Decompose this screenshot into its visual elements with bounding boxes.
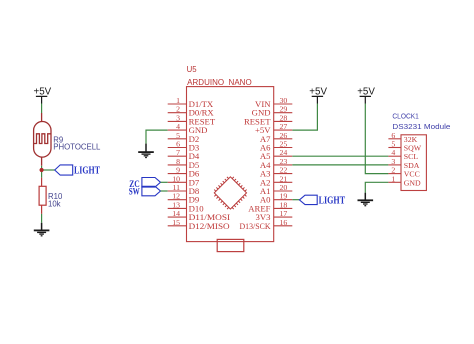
svg-text:PHOTOCELL: PHOTOCELL [53, 143, 101, 152]
svg-text:D12/MISO: D12/MISO [189, 221, 230, 231]
svg-text:5: 5 [391, 140, 395, 149]
svg-text:U5: U5 [187, 65, 198, 74]
svg-text:+5V: +5V [34, 86, 52, 97]
svg-text:20: 20 [280, 183, 288, 192]
svg-text:17: 17 [280, 209, 288, 218]
svg-text:15: 15 [172, 218, 180, 227]
svg-text:SCL: SCL [404, 152, 419, 161]
svg-text:26: 26 [280, 131, 288, 140]
svg-text:1: 1 [176, 96, 180, 105]
svg-text:21: 21 [280, 174, 288, 183]
svg-text:2: 2 [391, 166, 395, 175]
svg-text:VCC: VCC [404, 170, 420, 179]
svg-text:12: 12 [172, 192, 180, 201]
ground (DS3231 GND) [358, 193, 374, 206]
wire SW to D8 [161, 190, 168, 192]
svg-text:9: 9 [176, 166, 180, 175]
svg-text:10k: 10k [48, 200, 61, 209]
power +5V (right, DS3231 VCC) [360, 96, 371, 103]
svg-text:25: 25 [280, 140, 288, 149]
nano right pin stubs [274, 104, 293, 226]
svg-text:LIGHT: LIGHT [74, 166, 100, 177]
DS3231 pin numbers [391, 131, 395, 184]
svg-text:6: 6 [176, 140, 180, 149]
wire A4 to SDA [292, 164, 388, 166]
svg-text:16: 16 [280, 218, 288, 227]
wire A0 to LIGHT flag [292, 199, 299, 201]
svg-text:23: 23 [280, 157, 288, 166]
DS3231 pin stubs [388, 139, 401, 183]
svg-text:4: 4 [391, 148, 395, 157]
svg-text:D13/SCK: D13/SCK [240, 221, 272, 231]
power +5V (left, photocell supply) [36, 96, 47, 103]
wire nano GND pin4 to ground B [146, 130, 168, 144]
nano right pin numbers [280, 96, 288, 227]
svg-text:19: 19 [280, 192, 288, 201]
DS3231 pin names [404, 135, 422, 188]
svg-text:SW: SW [129, 187, 140, 197]
IC CLOCK1 DS3231 Module body [401, 135, 426, 191]
wire R10 to ground [41, 214, 43, 223]
svg-text:22: 22 [280, 166, 288, 175]
chip icon inside nano [211, 173, 250, 212]
nano right pin names [240, 99, 272, 231]
svg-text:CLOCK1: CLOCK1 [392, 112, 418, 121]
svg-text:29: 29 [280, 105, 288, 114]
svg-text:14: 14 [172, 209, 180, 218]
svg-text:+5V: +5V [309, 86, 327, 97]
svg-text:3: 3 [176, 113, 180, 122]
svg-text:8: 8 [176, 157, 180, 166]
wire ZC to D7 [161, 181, 168, 183]
svg-text:5: 5 [176, 131, 180, 140]
svg-text:1: 1 [391, 174, 395, 183]
svg-text:7: 7 [176, 148, 180, 157]
svg-text:ARDUINO NANO: ARDUINO NANO [187, 78, 252, 87]
wire +5V P2 to VCC [365, 104, 388, 174]
nano left pin stubs [168, 104, 187, 226]
svg-text:28: 28 [280, 113, 288, 122]
global label LIGHT (left) [55, 165, 73, 175]
svg-text:SDA: SDA [404, 161, 420, 170]
ground (below R10) [34, 223, 50, 236]
svg-text:13: 13 [172, 200, 180, 209]
svg-text:3: 3 [391, 157, 395, 166]
svg-text:SQW: SQW [404, 144, 422, 153]
svg-text:+5V: +5V [357, 86, 375, 97]
global label SW [142, 186, 161, 196]
svg-text:18: 18 [280, 200, 288, 209]
resistor R10 [39, 178, 46, 214]
svg-text:DS3231 Module: DS3231 Module [392, 122, 450, 131]
nano left pin names [189, 99, 231, 231]
global label LIGHT (right) [299, 195, 317, 204]
usb connector rect at nano bottom [217, 239, 244, 251]
global label ZC [142, 178, 161, 188]
wire +5V to photocell [41, 104, 43, 114]
power +5V (middle, nano pin 27) [312, 96, 323, 103]
svg-text:32K: 32K [404, 135, 418, 144]
wire +5V P1 to nano pin27 [292, 104, 317, 131]
svg-text:10: 10 [172, 174, 180, 183]
nano left pin numbers [172, 96, 180, 227]
svg-text:6: 6 [391, 131, 395, 140]
svg-text:2: 2 [176, 105, 180, 114]
wire junction to LIGHT flag [42, 169, 55, 171]
ground (nano GND pin 4) [138, 144, 154, 158]
svg-text:30: 30 [280, 96, 288, 105]
svg-text:GND: GND [404, 178, 421, 187]
svg-text:24: 24 [280, 148, 288, 157]
wire DS3231 GND to ground C [365, 182, 388, 192]
photocell R9 [34, 113, 51, 166]
svg-text:11: 11 [172, 183, 180, 192]
node LIGHT junction [40, 168, 44, 172]
wire photocell to R10 with junction [41, 166, 43, 178]
wire A5 to SCL [292, 155, 388, 157]
IC U5 ARDUINO NANO body [187, 87, 274, 242]
svg-text:LIGHT: LIGHT [319, 196, 346, 207]
svg-text:27: 27 [280, 122, 288, 131]
svg-text:4: 4 [176, 122, 180, 131]
